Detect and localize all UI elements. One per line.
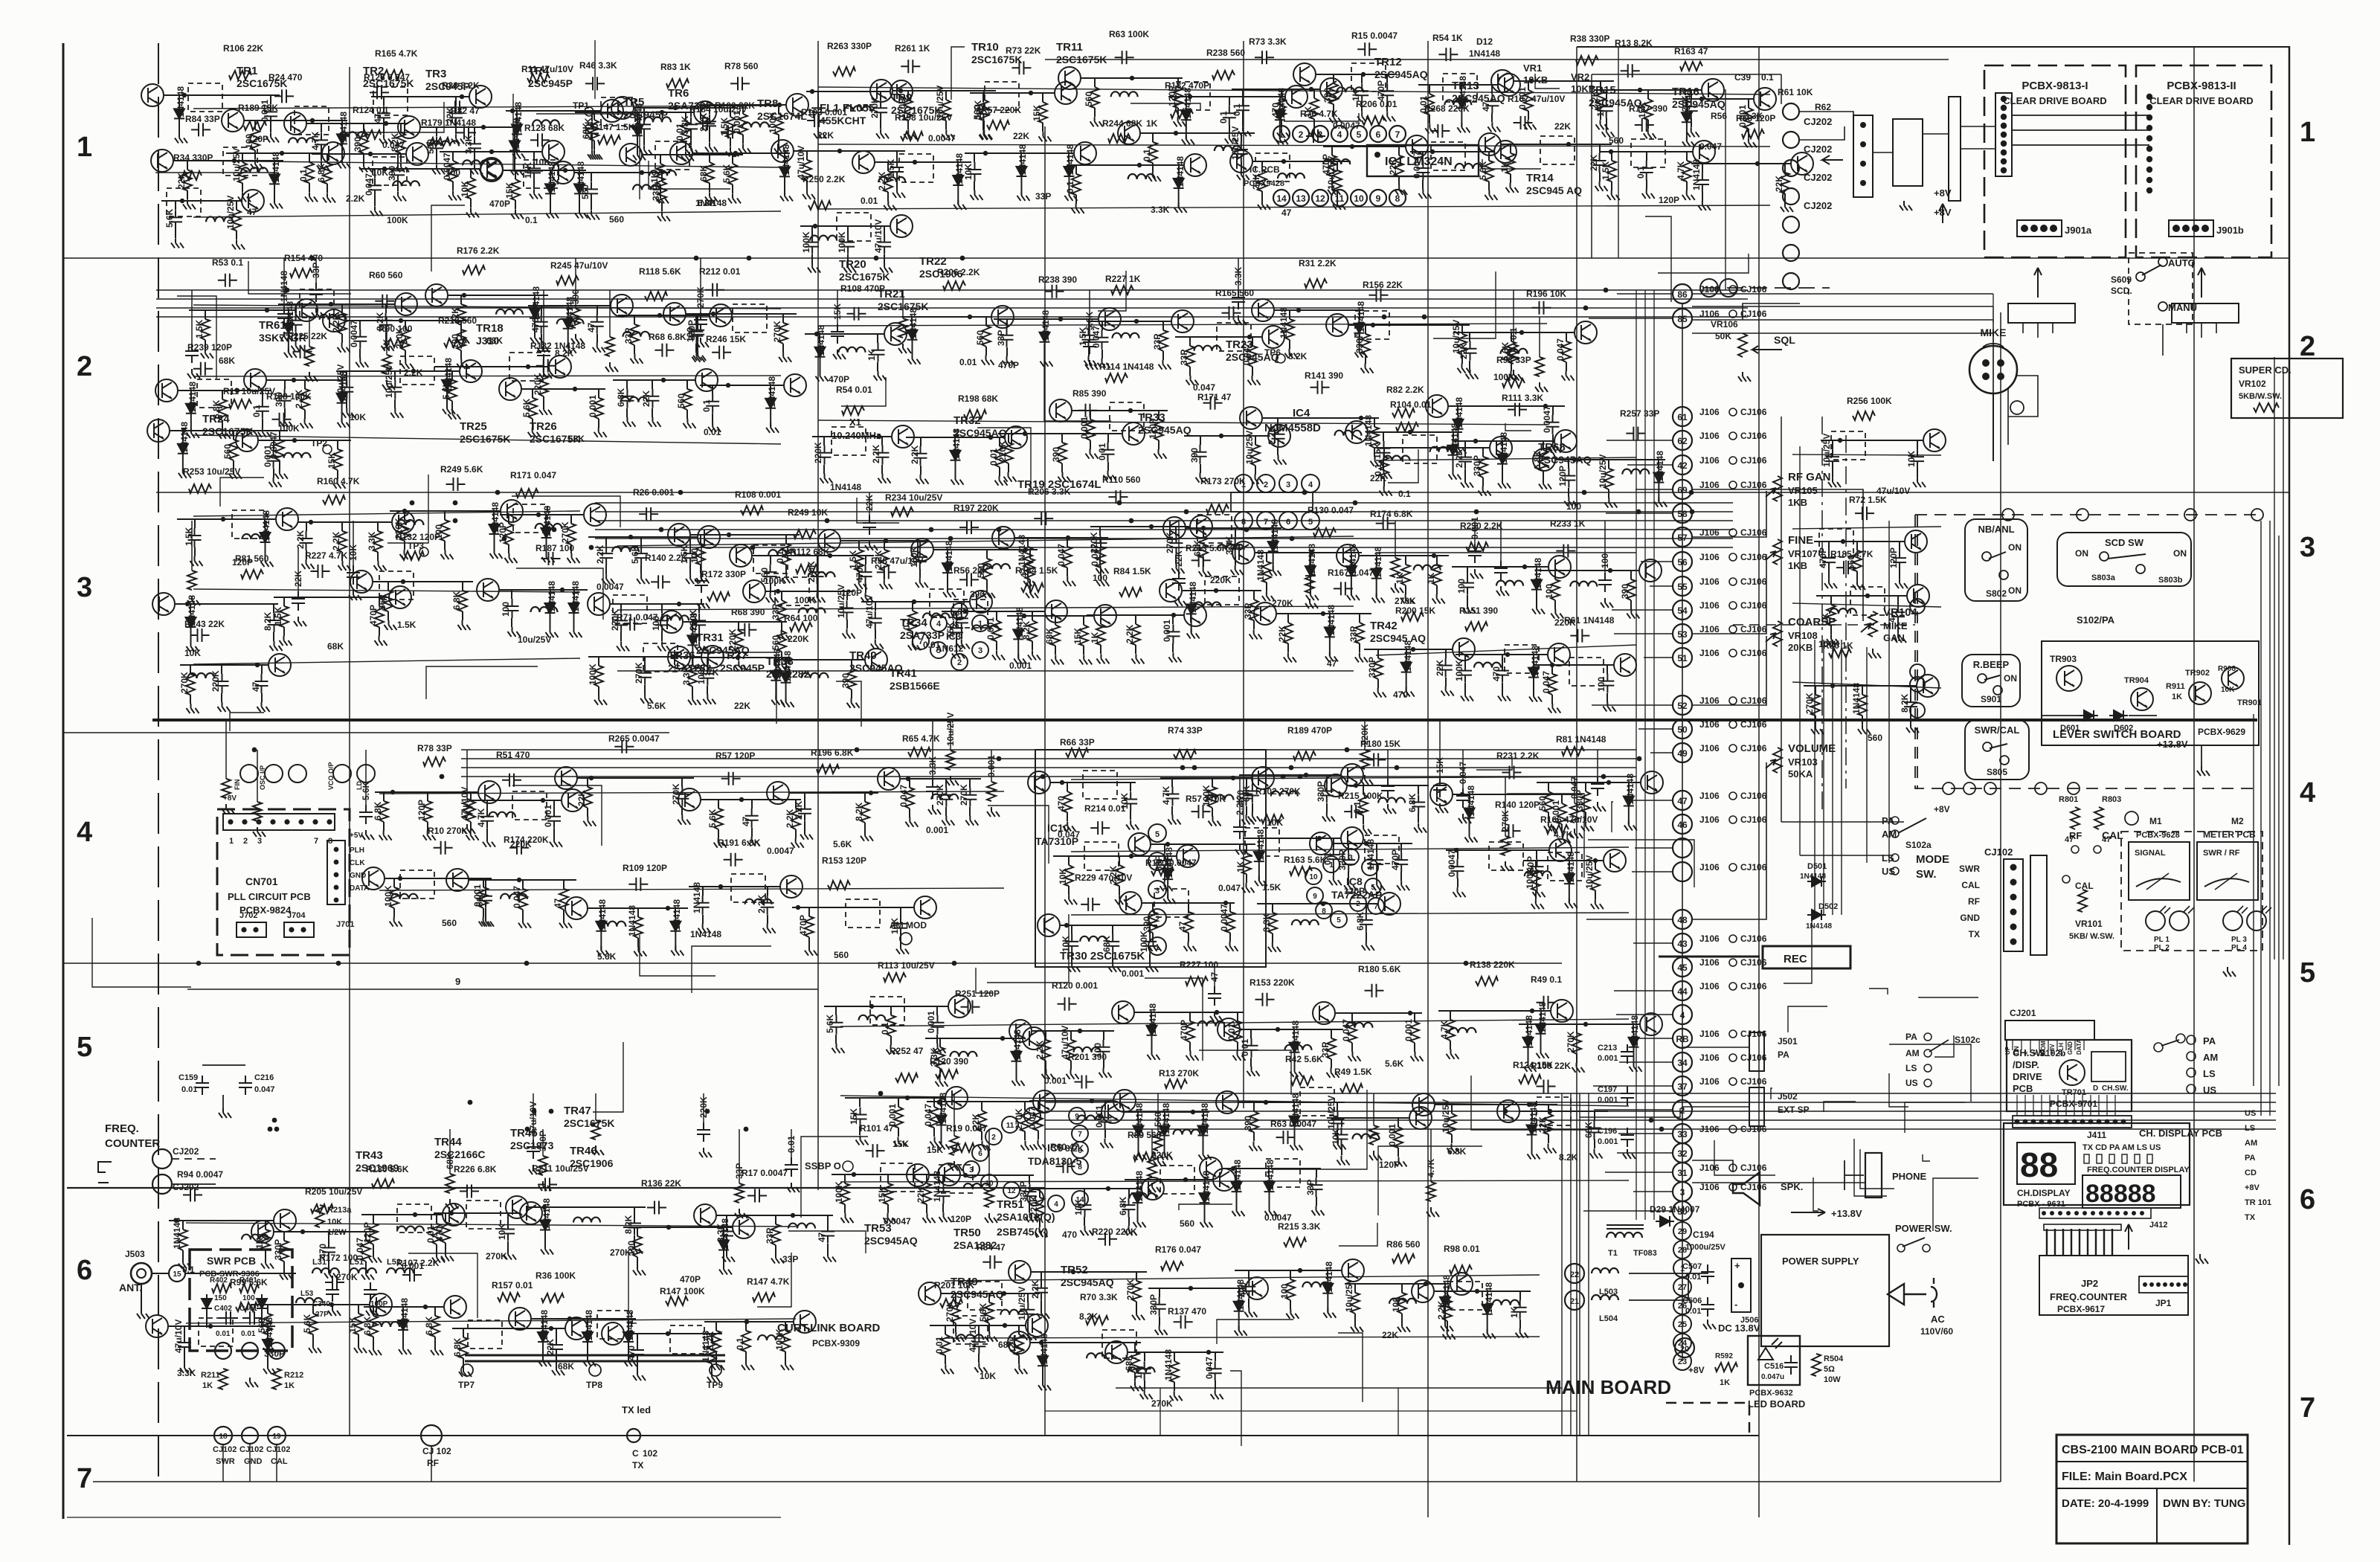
wire — [1469, 332, 1470, 341]
capacitor C163 — [430, 136, 443, 155]
junction — [284, 819, 289, 824]
wire — [532, 389, 533, 398]
diode D43 — [563, 315, 573, 348]
ground — [1041, 357, 1053, 367]
svg-text:3: 3 — [257, 837, 262, 846]
wire — [1006, 319, 1008, 328]
svg-text:7: 7 — [1078, 1131, 1082, 1139]
svg-text:R49 0.1: R49 0.1 — [1531, 974, 1562, 985]
svg-text:100: 100 — [689, 548, 700, 563]
ground — [270, 641, 283, 651]
svg-text:560: 560 — [442, 918, 457, 928]
svg-text:R206 0.01: R206 0.01 — [1356, 99, 1398, 109]
ground — [284, 348, 297, 358]
capacitor C247 — [730, 77, 750, 90]
svg-text:1N4148: 1N4148 — [782, 651, 793, 682]
svg-text:US: US — [2245, 1109, 2256, 1118]
wire — [434, 366, 548, 367]
svg-text:R174 6.8K: R174 6.8K — [1370, 509, 1413, 519]
terminal — [1783, 132, 1799, 148]
capacitor C21 — [959, 521, 979, 534]
svg-text:R118 5.6K: R118 5.6K — [639, 266, 681, 277]
IF can — [1431, 142, 1465, 170]
resistor R141 — [1313, 528, 1336, 537]
ground — [593, 343, 605, 353]
ground — [1698, 201, 1711, 210]
resistor R98 — [777, 600, 786, 621]
svg-text:10: 10 — [1309, 873, 1318, 881]
wire — [1692, 554, 1766, 634]
wire — [1599, 173, 1601, 181]
zone divider 2/3 — [156, 492, 2289, 493]
svg-text:2SC945 AQ: 2SC945 AQ — [1526, 184, 1582, 196]
resistor R255 — [777, 631, 786, 652]
svg-text:1.5K: 1.5K — [1601, 161, 1611, 180]
svg-text:10.240MHz: 10.240MHz — [832, 430, 881, 441]
resistor R32 — [201, 319, 210, 340]
wire — [451, 371, 453, 380]
wire — [2156, 1488, 2158, 1543]
junction — [1134, 319, 1139, 324]
wire — [451, 401, 453, 410]
svg-text:0.001: 0.001 — [1403, 1019, 1414, 1041]
dashed route — [1915, 515, 2257, 788]
svg-text:6.8K: 6.8K — [1355, 911, 1366, 931]
terminal — [1700, 279, 1718, 297]
svg-text:15K: 15K — [892, 1139, 909, 1149]
resistor R206 — [1502, 379, 1525, 388]
svg-text:LS: LS — [1905, 1063, 1917, 1073]
wire — [700, 535, 701, 544]
svg-text:R215 100K: R215 100K — [1338, 791, 1383, 801]
junction — [2023, 1119, 2028, 1125]
svg-text:9: 9 — [1313, 893, 1317, 901]
wire — [295, 304, 297, 313]
svg-text:R147 100K: R147 100K — [660, 1286, 705, 1296]
capacitor C506 — [1701, 1297, 1714, 1317]
inductor L94 — [320, 315, 347, 320]
svg-text:102: 102 — [643, 1448, 657, 1459]
resistor R46 — [696, 544, 705, 565]
bus band B — [595, 511, 1733, 512]
bus band D — [1045, 1102, 2276, 1103]
junction — [1023, 547, 1028, 552]
svg-text:TR44: TR44 — [434, 1136, 462, 1148]
svg-text:R504: R504 — [1824, 1354, 1844, 1363]
wire — [1692, 636, 1766, 705]
wire — [1606, 512, 1673, 514]
ground — [686, 145, 699, 155]
resistor R269 — [1154, 420, 1163, 440]
wire — [965, 152, 1073, 154]
resistor R198 — [842, 406, 864, 415]
transistor TR106 — [469, 86, 492, 108]
svg-text:1N4148: 1N4148 — [625, 1310, 635, 1341]
dashed route top — [1915, 514, 2257, 515]
wire — [573, 590, 575, 599]
wire — [1088, 347, 1090, 356]
svg-text:VR2: VR2 — [1571, 71, 1589, 83]
wire — [692, 622, 693, 631]
wire — [1617, 293, 1673, 295]
wire — [570, 544, 572, 553]
svg-text:1N4148: 1N4148 — [1683, 90, 1694, 121]
svg-text:1N4148: 1N4148 — [1270, 519, 1280, 550]
wire — [811, 254, 813, 263]
wire — [920, 466, 922, 475]
svg-text:220K: 220K — [1210, 575, 1232, 585]
resistor R156 — [1328, 155, 1337, 176]
terminal — [1924, 1033, 1932, 1041]
bold bus — [152, 719, 2257, 721]
svg-text:ON: ON — [2008, 542, 2022, 553]
svg-text:US: US — [2203, 1084, 2216, 1096]
svg-text:R13 270K: R13 270K — [1159, 1068, 1199, 1079]
svg-text:10u/25V: 10u/25V — [518, 634, 551, 645]
ground — [1328, 185, 1340, 195]
wire — [2056, 1040, 2058, 1050]
wire — [514, 127, 515, 136]
wire — [1841, 640, 1842, 915]
resistor R176 — [381, 70, 403, 79]
ground — [814, 129, 826, 138]
ground — [190, 556, 203, 566]
capacitor C230 — [216, 674, 229, 693]
svg-text:x: x — [2022, 1051, 2029, 1055]
transistor TR49 — [786, 94, 808, 116]
wire — [1032, 641, 1033, 650]
resistor R803 — [2094, 807, 2103, 829]
capacitor C139 — [1485, 94, 1499, 113]
wire — [295, 332, 297, 341]
IF can — [223, 147, 257, 176]
svg-text:SCD SW: SCD SW — [2105, 537, 2144, 548]
wire — [823, 465, 825, 474]
capacitor C138 — [872, 343, 885, 362]
transistor TR139 — [1491, 70, 1514, 92]
svg-text:R49 1.5K: R49 1.5K — [1334, 1067, 1372, 1077]
svg-text:100K: 100K — [696, 663, 707, 684]
terminal — [1910, 664, 1925, 679]
wire — [811, 226, 813, 235]
svg-text:1N4148: 1N4148 — [1533, 558, 1543, 589]
wire — [1686, 152, 1688, 161]
resistor R187 — [338, 531, 347, 552]
wire — [387, 582, 389, 591]
wire — [460, 325, 462, 334]
ground — [695, 641, 707, 651]
terminal — [1257, 475, 1275, 492]
capacitor C26 — [1377, 441, 1391, 460]
terminal — [1891, 854, 1899, 861]
wire — [686, 410, 688, 419]
svg-text:R201 10K: R201 10K — [934, 1280, 974, 1291]
svg-text:10K: 10K — [963, 164, 974, 180]
junction — [2176, 1282, 2181, 1287]
bus band A — [156, 307, 1748, 309]
svg-text:+13.8V: +13.8V — [1831, 1208, 1862, 1219]
capacitor C173 — [841, 235, 855, 254]
wire — [346, 371, 347, 380]
ground — [820, 474, 833, 483]
svg-text:R110 560: R110 560 — [1102, 475, 1141, 485]
wire — [1641, 561, 1673, 562]
box — [2097, 1154, 2102, 1163]
pin — [1729, 457, 1737, 464]
IF can — [733, 304, 767, 332]
resistor R189 — [982, 559, 991, 579]
wire — [1647, 120, 1649, 129]
svg-text:68K: 68K — [581, 123, 591, 139]
box — [2122, 1154, 2127, 1163]
svg-text:1.5K: 1.5K — [194, 319, 205, 338]
resistor R43 — [1159, 330, 1168, 351]
vertical bus — [2193, 47, 2195, 1482]
terminal — [1891, 830, 1899, 838]
svg-text:1N4148: 1N4148 — [1200, 1103, 1210, 1134]
wire — [1832, 640, 1833, 915]
IF can — [167, 188, 201, 216]
ground — [1454, 444, 1467, 454]
wire — [1647, 90, 1649, 99]
junction — [2056, 1119, 2061, 1125]
svg-text:J106: J106 — [1699, 1029, 1720, 1039]
capacitor C68 — [353, 330, 367, 349]
pin — [1729, 1164, 1737, 1171]
svg-text:6.8K: 6.8K — [316, 163, 327, 182]
wire — [770, 584, 771, 593]
svg-text:R111 3.3K: R111 3.3K — [1502, 393, 1543, 403]
terminal — [1673, 1334, 1691, 1352]
svg-text:47: 47 — [553, 898, 563, 908]
svg-text:CJ202: CJ202 — [1804, 116, 1832, 127]
wire — [2056, 1488, 2248, 1489]
ground — [656, 193, 669, 203]
transistor TR30 — [771, 140, 794, 162]
wire — [1349, 324, 1470, 326]
capacitor C122 — [706, 394, 719, 414]
resistor R26 — [458, 591, 467, 611]
inductor L23 — [810, 236, 837, 241]
ground — [1248, 376, 1261, 385]
ground — [728, 193, 741, 203]
resistor R76 — [901, 132, 923, 141]
wire — [1266, 582, 1267, 591]
svg-text:4: 4 — [2300, 777, 2315, 809]
diode D66 — [574, 179, 585, 213]
ground — [539, 405, 552, 415]
junction — [2048, 1119, 2053, 1125]
svg-text:R229 47u/10V: R229 47u/10V — [1075, 872, 1132, 883]
svg-text:PCBX-9628: PCBX-9628 — [2136, 831, 2180, 840]
IF can — [1540, 136, 1575, 164]
diode D57 — [186, 399, 196, 433]
svg-text:R212: R212 — [284, 1371, 303, 1380]
junction — [1860, 141, 1866, 147]
svg-text:0.01: 0.01 — [934, 1336, 945, 1354]
capacitor C37 — [1194, 445, 1207, 464]
svg-text:R252 47: R252 47 — [890, 1046, 924, 1056]
terminal — [215, 1343, 231, 1359]
capacitor C226 — [620, 389, 634, 408]
terminal — [930, 642, 947, 658]
resistor R31 — [373, 531, 382, 552]
wire — [337, 470, 338, 479]
wire — [1692, 1160, 1733, 1172]
wire — [1600, 111, 1601, 120]
svg-text:PCB: PCB — [2013, 1083, 2033, 1094]
pin — [1729, 578, 1737, 585]
wire — [884, 226, 885, 235]
row bus — [193, 658, 580, 664]
capacitor C192 — [191, 123, 210, 136]
svg-text:R85 390: R85 390 — [1072, 388, 1107, 399]
IF can — [775, 577, 809, 605]
junction — [1529, 79, 1534, 83]
wire — [1337, 161, 1338, 170]
wire — [222, 1095, 224, 1108]
svg-text:2SB1566E: 2SB1566E — [890, 680, 940, 692]
svg-text:CJ102: CJ102 — [213, 1445, 237, 1454]
terminal — [2146, 911, 2165, 931]
wire — [236, 201, 237, 210]
wire — [284, 380, 286, 389]
pin — [2001, 150, 2007, 155]
capacitor C266 — [530, 133, 550, 147]
capacitor C42 — [585, 181, 598, 201]
resistor R156 — [232, 210, 241, 231]
J506 connector — [1731, 1259, 1751, 1312]
diode D127 — [178, 440, 188, 473]
chain trunk — [1682, 303, 1683, 1220]
ground — [1687, 127, 1699, 137]
wire — [175, 201, 176, 210]
wire — [306, 522, 307, 531]
ground — [490, 549, 503, 559]
wire — [233, 460, 234, 469]
resistor R203 — [402, 551, 424, 560]
svg-text:R141 390: R141 390 — [1305, 370, 1343, 381]
capacitor C251 — [901, 60, 920, 73]
ground — [779, 353, 791, 362]
capacitor C158 — [364, 1282, 377, 1302]
terminal — [1148, 881, 1166, 899]
wire — [1418, 84, 1497, 86]
wire — [276, 1444, 277, 1482]
J502 EXT SP jack — [1749, 1087, 1764, 1126]
resistor R119 — [1781, 173, 1789, 193]
svg-text:FREQ.COUNTER DISPLAY: FREQ.COUNTER DISPLAY — [2087, 1166, 2190, 1174]
wire — [1449, 405, 1565, 407]
capacitor C215 — [264, 104, 277, 123]
junction — [2010, 894, 2017, 901]
transistor TR140 — [542, 141, 565, 163]
wire — [337, 440, 338, 449]
transistor TR903 — [2056, 666, 2082, 691]
svg-text:S102a: S102a — [1905, 840, 1932, 850]
wire — [346, 399, 347, 408]
wire — [861, 601, 969, 602]
transistor TR195 — [1190, 515, 1212, 538]
svg-text:22K: 22K — [1435, 660, 1445, 676]
svg-text:CJ106: CJ106 — [1740, 309, 1767, 319]
vertical bus — [817, 41, 819, 1190]
transistor TR146 — [244, 369, 266, 391]
svg-text:88: 88 — [2020, 1145, 2058, 1184]
terminal — [323, 445, 332, 454]
ground — [916, 475, 929, 484]
wire — [1075, 165, 1077, 174]
svg-text:R180 5.6K: R180 5.6K — [1358, 964, 1401, 974]
ground — [457, 334, 469, 344]
svg-text:0.1: 0.1 — [1218, 111, 1229, 123]
svg-text:NB/ANL: NB/ANL — [1978, 524, 2014, 535]
terminal — [1316, 902, 1332, 919]
transistor TR901 — [2222, 667, 2244, 690]
capacitor C158 — [1464, 341, 1477, 361]
junction — [1860, 180, 1866, 186]
svg-text:14: 14 — [1276, 193, 1287, 204]
row bus — [818, 420, 1547, 425]
svg-text:COM: COM — [2040, 1041, 2047, 1055]
ground — [880, 263, 892, 273]
junction — [884, 539, 888, 543]
wire — [194, 519, 196, 528]
meter M1 SIGNAL — [2129, 842, 2190, 900]
row bus — [818, 324, 1547, 326]
svg-text:R81 1N4148: R81 1N4148 — [1556, 734, 1606, 745]
transistor TR135 — [870, 80, 892, 102]
wire — [436, 127, 437, 136]
svg-text:TX CD PA AM LS US: TX CD PA AM LS US — [2082, 1143, 2161, 1152]
wire — [1692, 1182, 1865, 1183]
resistor R89 — [908, 611, 917, 631]
svg-text:J106: J106 — [1699, 791, 1720, 801]
svg-text:R592: R592 — [1715, 1352, 1733, 1360]
terminal 56 — [1673, 552, 1692, 571]
IF can — [295, 106, 329, 135]
wire — [1599, 144, 1601, 153]
junction — [1374, 152, 1380, 158]
svg-text:6.8K: 6.8K — [424, 1316, 434, 1335]
svg-text:2SC945 AQ: 2SC945 AQ — [1370, 632, 1426, 644]
resistor R145 — [1607, 161, 1616, 181]
junction — [2088, 1119, 2094, 1125]
svg-text:-: - — [1734, 1299, 1737, 1310]
transistor TR217 — [890, 80, 913, 103]
junction — [1738, 1282, 1744, 1288]
wire — [732, 155, 733, 164]
wire — [374, 197, 376, 206]
wire — [1422, 180, 1424, 189]
svg-text:R104 0.01: R104 0.01 — [1390, 399, 1432, 410]
svg-text:1K: 1K — [1426, 572, 1436, 584]
inductor L133 — [339, 132, 366, 137]
terminal — [357, 765, 375, 782]
junction — [1997, 359, 2004, 367]
bus band D — [1045, 1128, 2276, 1130]
svg-text:1.5K: 1.5K — [397, 620, 416, 630]
wire — [588, 536, 697, 538]
svg-text:3.3K: 3.3K — [681, 666, 692, 685]
inductor L15 — [188, 673, 215, 678]
mike pin — [2010, 401, 2024, 414]
svg-text:J503: J503 — [125, 1249, 145, 1259]
svg-text:1N4148: 1N4148 — [1800, 872, 1826, 881]
svg-text:VCO O/P: VCO O/P — [327, 762, 335, 790]
capacitor C196 — [654, 344, 674, 357]
svg-text:1N4148: 1N4148 — [1537, 1002, 1548, 1033]
